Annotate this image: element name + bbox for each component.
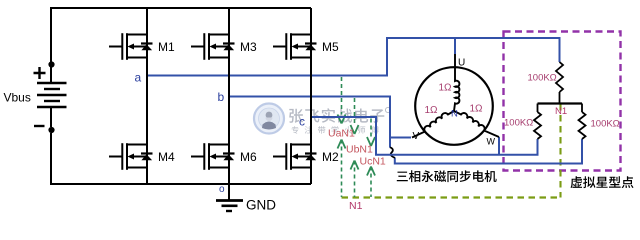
wire motor U stem (blue part) (454, 38, 456, 54)
node N1 reference dashed line (olive) (342, 196, 561, 198)
transistor M2 (273, 143, 339, 170)
label 三相永磁同步电机 (397, 170, 497, 182)
voltage arrow UbN1 (phase b to N1) (351, 98, 359, 197)
svg-text:c: c (299, 115, 305, 129)
svg-text:M4: M4 (158, 150, 175, 164)
svg-text:1Ω: 1Ω (470, 104, 484, 115)
svg-text:100KΩ: 100KΩ (591, 119, 620, 130)
svg-text:M1: M1 (158, 40, 175, 54)
wire half-bridge leg 3 (M5/M2) (310, 8, 312, 184)
transistor M1 (109, 33, 175, 60)
winding W (right coil) (454, 111, 499, 137)
voltage arrow UcN1 (phase c to N1) (367, 119, 375, 198)
wire phase c: bridge to motor W and left star resistor (311, 117, 538, 155)
wire hop (phase b jumps phase c) (390, 147, 395, 158)
svg-text:N1: N1 (349, 200, 363, 212)
svg-text:UbN1: UbN1 (346, 143, 373, 155)
junction dot Vbus+ (48, 61, 54, 67)
svg-text:1Ω: 1Ω (439, 83, 453, 94)
battery minus terminal (34, 125, 45, 127)
watermark text 张飞实战电子 (289, 107, 390, 123)
svg-text:W: W (487, 137, 496, 147)
transistor M6 (191, 143, 257, 170)
wire half-bridge leg 2 (M3/M6) (228, 8, 230, 184)
wire phase b continuation to right star resistor (395, 139, 582, 164)
power rail top (Vbus+) (50, 7, 311, 9)
svg-text:1Ω: 1Ω (425, 105, 439, 116)
wire phase a: bridge to motor U and star resistor (147, 38, 560, 76)
svg-text:100KΩ: 100KΩ (528, 73, 557, 84)
transistor M3 (191, 33, 257, 60)
battery plus terminal (34, 67, 46, 79)
svg-text:100KΩ: 100KΩ (504, 118, 533, 129)
junction dot Vbus- (48, 127, 54, 133)
svg-text:M3: M3 (240, 40, 257, 54)
svg-text:b: b (218, 90, 225, 104)
wire half-bridge leg 1 (M1/M4) (146, 8, 148, 184)
watermark logo badge (254, 104, 284, 134)
dashed box 虚拟星型点 (virtual star point) (504, 32, 621, 171)
voltage arrow UaN1 (phase a to N1) (338, 77, 346, 197)
svg-text:Vbus: Vbus (4, 91, 31, 105)
svg-text:a: a (135, 71, 142, 85)
svg-text:M2: M2 (322, 150, 339, 164)
transistor M5 (273, 33, 339, 60)
ground (216, 184, 243, 211)
battery Vbus (37, 8, 67, 184)
wire phase b: bridge to motor V (229, 97, 411, 148)
svg-text:V: V (413, 131, 420, 142)
label 虚拟星型点 (571, 176, 634, 188)
power rail bottom (GND) (50, 183, 311, 185)
svg-text:N1: N1 (555, 106, 567, 117)
svg-text:UaN1: UaN1 (328, 128, 355, 140)
node N1 bar (538, 102, 583, 104)
resistor 100K right (phase b) (579, 104, 586, 139)
resistor 100K left (phase c) (534, 104, 541, 139)
wire motor W to phase c node (498, 137, 500, 155)
svg-text:o: o (219, 184, 225, 195)
svg-text:GND: GND (246, 198, 276, 213)
wire dashed N1 to star point (olive vertical) (559, 104, 561, 198)
winding V (left coil) (412, 111, 454, 138)
svg-text:U: U (458, 58, 465, 69)
svg-text:N: N (451, 109, 458, 120)
motor PMSM circle (415, 67, 493, 145)
winding U (top coil) (454, 54, 459, 111)
svg-text:M5: M5 (322, 40, 339, 54)
resistor 100K top (phase a) (556, 62, 563, 92)
svg-text:M6: M6 (240, 150, 257, 164)
transistor M4 (109, 143, 175, 170)
watermark subtext (292, 126, 379, 134)
svg-text:UcN1: UcN1 (360, 155, 386, 167)
